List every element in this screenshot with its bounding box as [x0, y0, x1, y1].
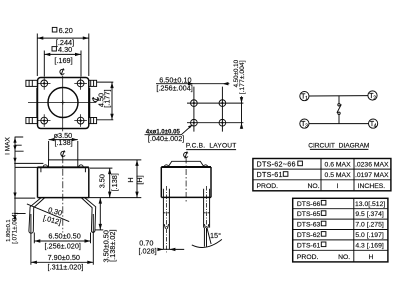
svg-text:7.90±0.50: 7.90±0.50: [48, 253, 80, 262]
I MAX ticks: [15, 137, 24, 151]
terminal A1: [38, 77, 51, 90]
svg-text:[.138±.02]: [.138±.02]: [108, 229, 117, 261]
right lead front: [81, 198, 96, 233]
label square 6.20: [52, 27, 57, 32]
wire lower stub: [338, 115, 340, 124]
PCBLAYOUT: [145, 59, 247, 158]
wire T3 T4: [309, 123, 369, 125]
side ear left: [164, 165, 168, 167]
svg-text:[.138]: [.138]: [54, 138, 72, 147]
swing arc 15 degrees: [192, 239, 222, 247]
side body top edge: [161, 166, 211, 168]
table2 r1 DTS-66: [297, 200, 385, 207]
pcb hole 2: [219, 100, 226, 107]
pcb hole 4: [219, 119, 226, 126]
svg-text:DTS-65: DTS-65: [297, 211, 321, 218]
pcb column centerlines: [194, 87, 223, 132]
label square 4.30: [52, 47, 56, 51]
table1 r1c1 DTS-62~66: [257, 160, 303, 169]
svg-text:DTS-62~66: DTS-62~66: [257, 160, 296, 169]
dimension 4.50 line: [111, 82, 113, 120]
terminal T3: [300, 119, 309, 129]
svg-text:DTS-62: DTS-62: [297, 232, 321, 239]
left upper lead tab: [26, 80, 38, 86]
terminal A4: [74, 114, 87, 127]
top view horizontal centerline: [28, 102, 96, 104]
button circle: [48, 88, 78, 118]
top view vertical centerline: [62, 76, 64, 132]
svg-text:0.6 MAX: 0.6 MAX: [325, 162, 352, 169]
CIRCUIT: [300, 91, 378, 150]
dimension 4.30 arrows: [44, 53, 81, 56]
TABLES: [253, 159, 391, 262]
body bottom extension left: [14, 197, 35, 199]
svg-text:NO.: NO.: [308, 183, 320, 190]
svg-text:9.5 [.374]: 9.5 [.374]: [355, 211, 383, 218]
dimension 4.50 pcb arrows: [240, 97, 243, 129]
svg-text:[H]: [H]: [135, 175, 144, 184]
1.80 dim arrows: [13, 193, 16, 220]
body bottom extension right: [89, 197, 142, 199]
svg-text:6.50±0.50: 6.50±0.50: [48, 231, 80, 240]
svg-text:.0197 MAX: .0197 MAX: [355, 172, 389, 179]
side left lead: [163, 186, 169, 252]
FRONTVIEW: [4, 136, 144, 271]
PCB LAYOUT underline: [186, 149, 236, 151]
side right lead: [204, 186, 212, 247]
dimension 0.70 arrows: [157, 248, 175, 251]
body top extension left: [16, 166, 38, 168]
dimension H arrows: [135, 160, 138, 198]
dimension 6.20 arrows: [37, 36, 89, 39]
dimension 4.50 pcb line: [241, 96, 243, 129]
dimension 7.90 extension lines: [31, 214, 93, 265]
svg-text:[.311±.020]: [.311±.020]: [48, 263, 84, 272]
svg-text:[.138]: [.138]: [110, 173, 119, 191]
dimension 4.30 line: [44, 53, 81, 55]
dimension 7.90 arrows: [31, 261, 93, 264]
body top extension right: [90, 167, 112, 169]
svg-text:P.C.B. LAYOUT: P.C.B. LAYOUT: [186, 143, 237, 150]
body side recess lines: [37, 88, 90, 117]
contact lower: [338, 112, 340, 114]
table2 r4 DTS-62: [297, 232, 384, 239]
svg-text:I: I: [336, 183, 338, 190]
pcb hole 3: [191, 119, 198, 126]
stem pressed reference line: [14, 162, 43, 164]
svg-text:PROD.: PROD.: [257, 183, 279, 190]
front view centerline: [62, 156, 64, 232]
front view body top edge: [38, 166, 89, 168]
table2 r2 DTS-65: [297, 211, 384, 218]
centerline symbol below: [61, 150, 65, 157]
stem top extension right: [78, 159, 142, 161]
dimension dia 3.50 line: [49, 139, 78, 141]
centerline symbol top: [60, 68, 64, 75]
table2 r6 PROD NO H: [297, 254, 374, 261]
front view stem: [49, 160, 78, 167]
pcb row centerlines: [187, 103, 243, 123]
svg-text:INCHES.: INCHES.: [358, 183, 386, 190]
svg-text:[.040±.002]: [.040±.002]: [148, 134, 184, 143]
switch body top view: [38, 78, 89, 129]
table1 column lines: [321, 159, 354, 191]
I MAX arrows: [13, 137, 16, 163]
side ear right: [204, 165, 208, 167]
svg-text:DTS-61: DTS-61: [297, 242, 321, 249]
left lower lead tab: [26, 118, 38, 124]
left lead front: [29, 198, 45, 234]
kink level extension left: [14, 213, 25, 215]
dimension 6.50 line: [34, 240, 90, 242]
dimension 4.50 extension lines: [97, 82, 114, 120]
table1 r3c1 PROD NO: [257, 183, 320, 190]
dimension 0.70 line: [158, 248, 185, 250]
dia 3.50 extension lines: [49, 141, 78, 160]
svg-text:4.3 [.169]: 4.3 [.169]: [355, 242, 383, 249]
dimension 6.50 pcb arrows: [188, 82, 229, 85]
svg-text:[.256±.004]: [.256±.004]: [156, 84, 192, 93]
front view body bottom: [38, 197, 89, 199]
leader 0.30: [27, 204, 69, 222]
side body sides: [161, 167, 211, 197]
center cross mark: [61, 101, 65, 105]
dimension 6.20 extension lines: [37, 34, 89, 77]
TOPVIEW: [26, 26, 114, 160]
table2 row lines: [293, 209, 388, 251]
dimension 3.50 body line: [109, 168, 111, 198]
I MAX dimension line: [14, 137, 16, 221]
svg-text:[.071±.004]: [.071±.004]: [11, 212, 18, 244]
dimension 4.50 arrows: [110, 82, 113, 120]
svg-text:PROD.: PROD.: [297, 254, 319, 261]
dimension 6.50 arrows: [34, 239, 90, 242]
dimension dia 3.50 arrows: [49, 138, 78, 141]
terminal T2: [368, 91, 377, 101]
terminal T4: [369, 119, 378, 129]
dimension 6.50 extension lines: [34, 233, 90, 244]
svg-text:H: H: [126, 177, 135, 182]
switch blade: [337, 104, 341, 113]
svg-text:6.20: 6.20: [59, 26, 73, 35]
svg-text:0.5 MAX: 0.5 MAX: [325, 172, 352, 179]
svg-text:[.177±.004]: [.177±.004]: [239, 60, 246, 94]
svg-text:DTS-63: DTS-63: [297, 222, 321, 229]
svg-text:3.50: 3.50: [98, 174, 107, 188]
wire T1 T2: [309, 95, 368, 97]
right lower lead tab: [89, 118, 97, 124]
terminal A3: [38, 114, 51, 127]
table1 row lines: [253, 169, 391, 180]
terminal T1: [300, 92, 309, 102]
wire upper stub: [338, 96, 340, 104]
dimension H line: [136, 160, 138, 198]
table2 border: [293, 198, 388, 262]
centerline symbol right: [92, 97, 99, 101]
hole leader line: [145, 126, 192, 135]
svg-text:CIRCUIT DIAGRAM: CIRCUIT DIAGRAM: [308, 143, 369, 150]
svg-text:4.30: 4.30: [58, 45, 72, 54]
svg-text:I MAX: I MAX: [4, 136, 11, 154]
svg-text:H: H: [368, 254, 373, 261]
pcb hole 1: [191, 100, 198, 107]
svg-text:7.0 [.275]: 7.0 [.275]: [355, 222, 383, 229]
table2 column line: [353, 198, 355, 262]
right upper lead tab: [89, 80, 97, 86]
dimension 6.20 line: [37, 37, 89, 39]
svg-text:[.177]: [.177]: [103, 89, 112, 107]
cover fold marks: [41, 167, 86, 172]
ear left: [43, 165, 47, 167]
svg-text:[.028]: [.028]: [138, 246, 156, 255]
table2 r3 DTS-63: [297, 221, 384, 228]
front view body sides: [38, 167, 89, 197]
dimension 3.50 body arrows: [108, 168, 111, 198]
circuit diagram underline: [310, 148, 369, 150]
svg-text:DTS-66: DTS-66: [297, 201, 321, 208]
svg-text:15°: 15°: [210, 231, 221, 240]
svg-text:.0236 MAX: .0236 MAX: [355, 162, 389, 169]
table2 r5 DTS-61: [297, 242, 384, 249]
dimension 4.30 extension lines: [44, 51, 81, 77]
table1 r2c1 DTS-61: [257, 170, 288, 179]
dimension 6.50 pcb line: [156, 83, 229, 85]
svg-text:[.256±.020]: [.256±.020]: [44, 241, 80, 250]
dimension 3.50 lead arrows: [99, 198, 102, 230]
svg-text:NO.: NO.: [338, 254, 350, 261]
svg-text:[.169]: [.169]: [54, 56, 72, 65]
SIDEVIEW: [138, 158, 221, 256]
table1 border: [253, 159, 391, 191]
svg-text:5.0 [.197]: 5.0 [.197]: [355, 232, 383, 239]
contact upper: [338, 104, 340, 106]
side view stem: [168, 161, 204, 167]
dimension 7.90 line: [31, 261, 93, 263]
ear right: [79, 165, 83, 167]
side body bottom: [161, 196, 211, 198]
side view centerline: [185, 158, 187, 204]
lead tip extension right: [95, 229, 103, 231]
centerline symbol pcb: [184, 152, 188, 159]
svg-text:DTS-61: DTS-61: [257, 170, 283, 179]
dimension 3.50 lead line: [99, 198, 101, 230]
terminal A2: [74, 77, 87, 90]
hole leader arrow: [188, 125, 193, 129]
svg-text:13.0[.512]: 13.0[.512]: [355, 201, 385, 208]
